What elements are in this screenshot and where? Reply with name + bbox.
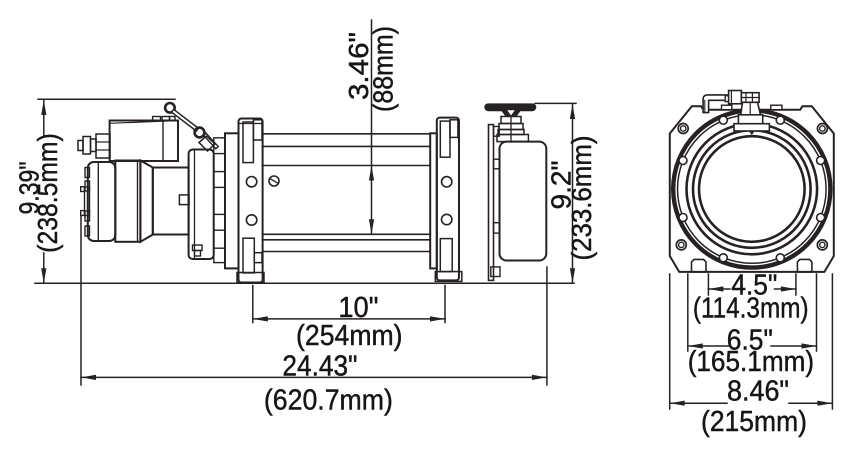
port fitting collar [91, 139, 97, 152]
extension line 10in left [252, 286, 254, 323]
valve mount trapezoid [741, 102, 761, 115]
right plate bottom slot [440, 239, 452, 272]
drum right disc [430, 133, 437, 268]
drum flange bottom line [263, 251, 431, 253]
svg-text:(114.3mm): (114.3mm) [693, 293, 809, 325]
clutch plate foot [491, 267, 500, 277]
baseline ground line [35, 282, 574, 284]
top elbow fitting vertical [703, 95, 727, 113]
arrow down 9.39 [41, 268, 46, 283]
extension line 10in right [444, 286, 446, 323]
arrow up 3.46 [369, 166, 374, 181]
arrow right 10in [430, 316, 445, 321]
extension line 6.5 right [816, 274, 818, 351]
left plate bolt hole B [246, 215, 256, 225]
left plate bottom cap [237, 273, 264, 283]
ring bolt 7 [776, 254, 784, 262]
elbow nut [725, 96, 729, 102]
svg-text:8.46": 8.46" [727, 376, 789, 408]
svg-text:(215mm): (215mm) [701, 406, 807, 438]
clutch pin chain ring 1 [165, 103, 175, 113]
stem tier 1 [501, 117, 521, 124]
hydraulic port fitting cap [78, 141, 83, 151]
ring bolt 8 [817, 214, 825, 222]
front housing outline [670, 106, 834, 272]
svg-text:24.43": 24.43" [282, 351, 357, 383]
stem tier 2 [499, 124, 523, 130]
port fitting hex 2 [96, 134, 110, 158]
flange ring inner [678, 115, 827, 264]
port fitting hex 1 [83, 137, 91, 155]
valve block front [729, 91, 742, 104]
gearbox bell housing [189, 150, 214, 260]
left plate bolt hole A [246, 177, 256, 187]
arrow left 10in [253, 316, 268, 321]
bell bottom fitting [193, 245, 203, 251]
drum barrel top line [263, 165, 431, 167]
svg-text:(620.7mm): (620.7mm) [264, 385, 393, 417]
mid plate bumps [81, 187, 85, 192]
valve top ribs [153, 117, 161, 121]
drum bore circle 2 [693, 130, 811, 248]
ring bolt 1 [817, 157, 825, 165]
clamp pointer [749, 131, 755, 135]
corner bolt bottom-left [676, 240, 686, 250]
extension line 24.43 right [546, 267, 548, 385]
valve block [110, 121, 178, 162]
right plate bottom cap [435, 272, 462, 282]
ring bolt 5 [679, 214, 687, 222]
arrow down 3.46 [369, 219, 374, 234]
dimension 4.5in left segment [708, 288, 730, 290]
extension line 24.43 left [80, 216, 82, 385]
ring bolt 2 [776, 116, 784, 124]
clutch pin chain ring 2 [195, 128, 205, 138]
right tie plate [437, 118, 459, 281]
motor end cap [88, 162, 116, 241]
extension line top of winch [38, 98, 175, 100]
handwheel spokes [501, 110, 521, 116]
flange ring outer [673, 110, 830, 267]
extension line 4.5 right [795, 274, 797, 295]
valve mount base [738, 115, 762, 124]
svg-text:(88mm): (88mm) [368, 26, 399, 112]
dimension 8.46in line [670, 402, 727, 404]
right plate bolt hole B [442, 214, 452, 224]
motor cone section [140, 161, 152, 242]
stem tier 4 [497, 135, 528, 142]
dimension 6.5in right segment [771, 345, 817, 347]
left plate top slot [243, 122, 253, 163]
bell inner line [194, 150, 196, 260]
svg-text:(165.1mm): (165.1mm) [688, 346, 814, 378]
drum left disc [225, 133, 239, 268]
dimension 9.39in vertical line [43, 100, 45, 136]
extension line handwheel top [535, 102, 576, 104]
drum flange top line [263, 133, 431, 135]
dimension 3.46in vertical line [371, 20, 373, 234]
dimension 24.43in line [81, 376, 547, 378]
clutch plate tabs [494, 127, 500, 137]
dimension 4.5in right segment [775, 288, 796, 290]
motor left mid plate [85, 187, 90, 216]
ring bolt 6 [719, 254, 727, 262]
valve block rear [741, 93, 759, 103]
extension line 6.5 left [687, 274, 689, 351]
handwheel bar [485, 104, 535, 110]
left plate top cap line [239, 123, 263, 125]
ring bolt 4 [679, 157, 687, 165]
clamp plate [734, 124, 769, 131]
drum barrel bottom line [263, 233, 431, 235]
arrow up 9.2 [570, 104, 575, 119]
svg-text:(238.5mm): (238.5mm) [32, 133, 63, 253]
motor second cylinder [153, 168, 189, 235]
arrow right 24.43 [532, 375, 547, 380]
ring bolt 3 [719, 116, 727, 124]
svg-text:(233.6mm): (233.6mm) [566, 136, 597, 261]
coupling boss [179, 195, 189, 205]
corner bolt bottom-right [817, 240, 827, 250]
motor main cylinder [115, 161, 140, 242]
drum bore circle 1 [687, 124, 818, 255]
valve block divider [162, 121, 164, 162]
cable layer top line [263, 145, 431, 147]
left plate bottom slot [243, 238, 254, 273]
extension line 4.5 left [707, 274, 709, 295]
bell to plate bolt lugs [214, 138, 225, 154]
cable layer bottom line [263, 239, 431, 241]
svg-text:(254mm): (254mm) [296, 320, 403, 352]
corner bolt top-left [678, 124, 688, 134]
arrow left 24.43 [81, 375, 96, 380]
right plate top slot [440, 121, 450, 157]
extension line 8.46 right [831, 274, 833, 409]
lock pin [206, 136, 216, 147]
drum bore circle 3 [699, 136, 805, 242]
housing top tab left [722, 105, 732, 110]
arrow down 9.2 [570, 268, 575, 283]
dimension 9.2in vertical line [572, 104, 574, 283]
extension line 8.46 left [669, 274, 671, 409]
left tie plate [239, 119, 263, 283]
stem center line [510, 117, 512, 142]
right foot pad [797, 259, 812, 272]
corner bolt top-right [817, 124, 827, 134]
stem tier 3 [498, 130, 524, 135]
end cap bolt lugs [85, 168, 90, 178]
dimension 6.5in left segment [688, 345, 729, 347]
clutch front plate [489, 125, 494, 281]
right plate bolt hole A [442, 177, 452, 187]
pin bracket [199, 136, 215, 151]
clutch drum housing [500, 142, 547, 261]
housing top tab right [771, 105, 782, 110]
tensioner screw [269, 176, 279, 186]
dimension 10in line [253, 318, 445, 320]
chain rod [174, 112, 196, 129]
left foot pad [692, 259, 707, 272]
arrow up 9.39 [41, 100, 46, 115]
